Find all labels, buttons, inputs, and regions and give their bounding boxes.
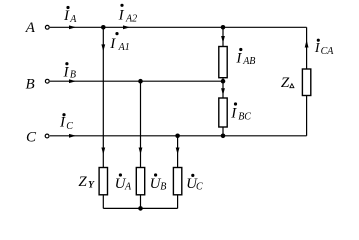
impedance Z_BC (delta branch B-C): [219, 98, 227, 127]
wire: branch vertical from node C to Z_Y phase C: [177, 136, 179, 168]
label: current I_A (dot above I, subscript A): [63, 6, 77, 25]
svg-text:A: A: [69, 14, 77, 25]
wire: phase C horizontal line: [50, 135, 307, 137]
label: voltage U_C: [186, 174, 203, 193]
node: junction neutral bus / Z_Y phase B lead: [138, 206, 143, 211]
arrow: current I_BC into Z_BC: [221, 88, 225, 95]
wire: branch I_A1 vertical (node A to Z_Y phase A): [102, 27, 104, 167]
svg-text:C: C: [66, 121, 73, 132]
wire: Z_Y phase C bottom lead: [177, 195, 179, 209]
wire: Z_Y phase A bottom lead: [102, 195, 104, 209]
svg-text:AB: AB: [242, 56, 255, 67]
wire: node A2 down to Z_AB top: [222, 27, 224, 46]
impedance Z_Y phase B: [136, 168, 144, 195]
svg-text:I: I: [230, 106, 237, 122]
arrow: current I_AB into Z_AB: [221, 36, 225, 43]
svg-text:A1: A1: [118, 42, 130, 53]
arrow: current into Z_Y phase A: [101, 148, 105, 155]
svg-text:A: A: [25, 20, 36, 36]
wire: Z_AB bottom to Z_BC top through node AB-B: [222, 78, 224, 98]
wire: phase B horizontal line: [50, 80, 223, 82]
node: junction line B / Y branch B: [138, 79, 143, 84]
svg-text:Z: Z: [281, 75, 290, 91]
svg-text:I: I: [63, 8, 70, 24]
svg-text:I: I: [235, 51, 242, 67]
label: current I_B: [63, 62, 77, 80]
node: junction line C / delta column: [221, 134, 226, 139]
wire: right branch vertical, line A corner down to Z_CA top: [306, 27, 308, 69]
svg-text:C: C: [26, 130, 37, 146]
label: voltage U_A (dot above U): [115, 173, 132, 192]
wire: Z_Y phase B bottom lead: [140, 195, 142, 209]
terminal A: [45, 25, 49, 29]
label: current I_AB: [235, 48, 255, 67]
svg-text:BC: BC: [238, 111, 251, 122]
arrow: current I_B on line B: [69, 79, 76, 83]
arrow: current I_A2 on line A after node: [123, 25, 130, 29]
node: junction line A / delta branch AB: [221, 25, 226, 30]
node: junction line B / delta column: [221, 79, 226, 84]
label: impedance Z_delta (Z with triangle subscript): [281, 75, 294, 91]
wire: branch vertical from node B to Z_Y phase B: [140, 81, 142, 167]
label: current I_CA: [314, 39, 334, 57]
svg-text:B: B: [160, 181, 166, 192]
wire: Z_CA bottom down to line C corner: [306, 96, 308, 136]
impedance Z_AB (delta branch A-B): [219, 47, 227, 78]
wire: neutral bottom bus: [103, 207, 177, 209]
label: impedance Z_Y (Z with bold Y subscript): [78, 174, 95, 190]
arrow: current into Z_Y phase C: [176, 148, 180, 155]
svg-text:I: I: [63, 64, 70, 80]
arrow: current I_CA upward in right branch: [305, 40, 309, 48]
svg-text:B: B: [26, 76, 35, 92]
arrow: current I_C on line C: [69, 134, 76, 138]
label: current I_C: [59, 113, 73, 132]
svg-text:CA: CA: [321, 46, 335, 57]
node: junction line C / Y branch C: [175, 134, 180, 139]
arrow: current into Z_Y phase B: [139, 148, 143, 155]
svg-text:C: C: [196, 181, 203, 192]
label: voltage U_B: [150, 173, 167, 192]
svg-text:I: I: [59, 115, 66, 131]
impedance Z_delta (delta branch C-A): [302, 69, 310, 96]
terminal B: [45, 79, 49, 83]
svg-text:B: B: [70, 70, 76, 81]
terminal C: [45, 134, 49, 138]
arrow: current I_A1 downward: [101, 44, 105, 51]
svg-text:A: A: [124, 181, 132, 192]
node: junction line A / branch I_A1: [101, 25, 106, 30]
impedance Z_Y phase C: [173, 168, 181, 195]
svg-text:Z: Z: [78, 174, 87, 190]
label: current I_BC: [230, 102, 251, 122]
impedance Z_Y phase A: [99, 168, 107, 195]
wire: phase A horizontal line: [50, 26, 307, 28]
svg-text:I: I: [118, 7, 125, 23]
label: current I_A1: [109, 32, 129, 53]
arrow: current I_A on line A: [69, 25, 76, 29]
label: current I_A2: [118, 4, 138, 25]
svg-text:I: I: [109, 36, 116, 52]
svg-text:A2: A2: [125, 13, 137, 24]
wire: Z_BC bottom to node on line C: [222, 127, 224, 136]
